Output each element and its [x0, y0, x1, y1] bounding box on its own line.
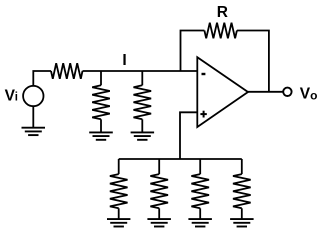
svg-text:o: o: [310, 88, 317, 102]
svg-text:I: I: [122, 52, 126, 69]
svg-text:R: R: [217, 4, 228, 21]
svg-text:i: i: [15, 91, 18, 103]
